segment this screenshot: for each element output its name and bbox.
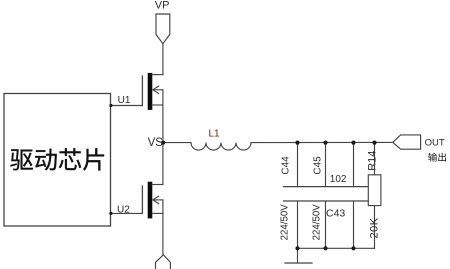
svg-text:OUT: OUT xyxy=(425,137,445,148)
inductor L1 xyxy=(191,143,251,151)
ground lead xyxy=(297,248,299,263)
ground bar xyxy=(285,262,312,264)
capacitor C43 branch vertical bottom xyxy=(353,201,355,248)
driver chip box xyxy=(4,94,111,227)
resistor R14 body xyxy=(368,175,381,206)
node dot U2 gate at box xyxy=(109,212,112,215)
OUT connector pentagon xyxy=(393,135,421,149)
node dots on top rail xyxy=(295,141,299,145)
svg-text:224/50V: 224/50V xyxy=(280,204,291,241)
capacitor C44 branch vertical top xyxy=(297,143,299,187)
node VS junction dot xyxy=(161,141,165,145)
capacitor C43 branch vertical top xyxy=(353,143,355,187)
wire VP to U1 drain xyxy=(162,44,164,75)
wire VS to L1 xyxy=(163,142,191,144)
svg-text:VS: VS xyxy=(148,137,164,149)
wire L1 to OUT xyxy=(251,141,393,143)
node dot U1 gate at box xyxy=(109,104,112,107)
capacitor C45 branch vertical top xyxy=(325,143,327,187)
svg-text:L1: L1 xyxy=(209,128,221,139)
svg-text:VP: VP xyxy=(155,0,170,12)
svg-text:C45: C45 xyxy=(313,156,324,175)
svg-text:U1: U1 xyxy=(118,95,131,106)
negative supply pentagon (cut off at bottom) xyxy=(156,255,171,269)
resistor R14 branch vertical top xyxy=(374,143,376,175)
capacitor C44 branch vertical bottom xyxy=(297,201,299,248)
svg-text:20K: 20K xyxy=(369,217,381,238)
svg-text:C44: C44 xyxy=(281,156,292,175)
VP supply pentagon xyxy=(156,14,170,44)
transistor U2 xyxy=(111,182,163,219)
svg-text:C43: C43 xyxy=(326,207,345,219)
capacitor C45 branch vertical bottom xyxy=(325,201,327,248)
wire VS to U2 drain xyxy=(162,143,164,185)
resistor R14 branch vertical bottom xyxy=(374,206,376,249)
wire U1 source to VS xyxy=(162,105,164,143)
capacitor plates bottom xyxy=(284,200,368,202)
label 输出 (output) xyxy=(428,153,446,162)
svg-text:102: 102 xyxy=(330,174,347,185)
svg-text:224/50V: 224/50V xyxy=(312,204,323,241)
wire U2 source to negative supply xyxy=(162,213,164,254)
node dots on bottom rail xyxy=(295,246,299,250)
capacitor plates top xyxy=(284,186,368,188)
svg-text:R14: R14 xyxy=(367,151,379,171)
svg-text:U2: U2 xyxy=(117,205,130,216)
bottom rail wire xyxy=(298,247,375,249)
transistor U1 xyxy=(111,73,163,110)
label 驱动芯片 (driver chip) xyxy=(10,148,104,170)
